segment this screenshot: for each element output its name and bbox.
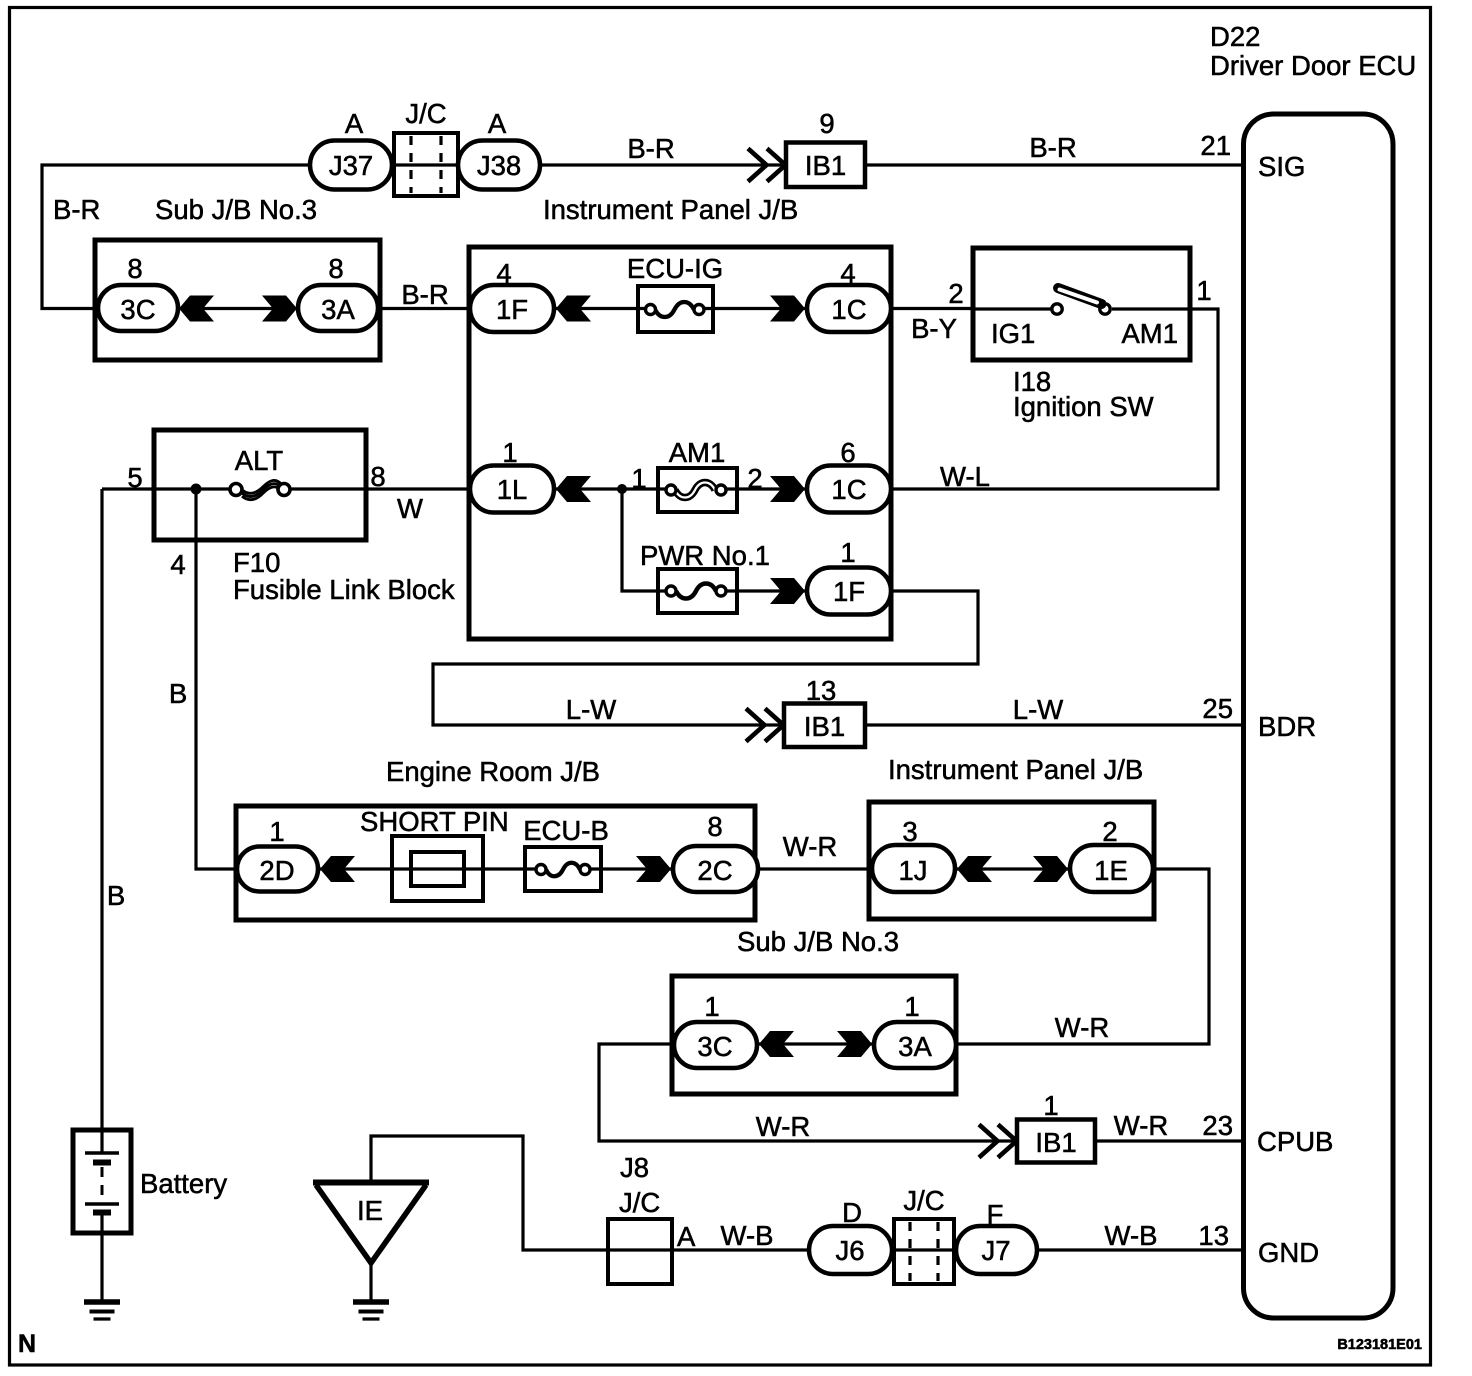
svg-text:L-W: L-W xyxy=(566,694,616,725)
svg-text:B-R: B-R xyxy=(1029,132,1076,163)
connector 1J (3) xyxy=(872,845,955,892)
svg-text:F: F xyxy=(987,1199,1004,1230)
connector 3A (8) xyxy=(298,285,378,331)
wire L-W: 1F(1) loop to IB1 (13) xyxy=(433,591,978,725)
arrow left at 3C lower xyxy=(759,1031,794,1057)
wire W-R: 1E down to 3A xyxy=(956,869,1209,1044)
junction dot at ALT pin 4 branch xyxy=(191,484,202,495)
wire: IE ground point to J8 xyxy=(371,1136,809,1250)
arrow left at 2D xyxy=(320,856,355,882)
wire W-R: 3C loop to IB1 (1) xyxy=(599,1044,1017,1141)
svg-text:B-R: B-R xyxy=(627,133,674,164)
svg-text:IB1: IB1 xyxy=(805,150,846,181)
svg-text:AM1: AM1 xyxy=(1121,318,1178,349)
svg-text:6: 6 xyxy=(840,437,855,468)
svg-text:W: W xyxy=(397,493,423,524)
connector 1F (4) xyxy=(470,285,554,332)
wire W-R: IB1 to ECU pin 23 CPUB xyxy=(1095,1139,1243,1142)
connector IB1 (13) xyxy=(784,704,865,748)
arrow right at 2C xyxy=(636,856,671,882)
svg-text:4: 4 xyxy=(840,258,855,289)
svg-text:1C: 1C xyxy=(831,294,866,325)
wire: ECU-B fuse to 2C xyxy=(585,867,673,870)
wire B-R: J38 to IB1 (top) xyxy=(540,163,786,166)
svg-text:2D: 2D xyxy=(259,855,294,886)
svg-text:A: A xyxy=(488,108,507,139)
svg-text:3A: 3A xyxy=(321,294,355,325)
connector 1C (4) xyxy=(807,285,891,332)
chevron arrows into IB1 (top) xyxy=(748,149,786,182)
svg-text:1C: 1C xyxy=(831,474,866,505)
wire: AM1 fuse to 1C(6) xyxy=(721,487,807,490)
connector J7 (F) xyxy=(956,1226,1037,1274)
arrow right at 3A xyxy=(262,296,297,322)
arrow left at 1L xyxy=(556,476,591,502)
wire B: battery vertical xyxy=(100,489,103,1153)
svg-text:3: 3 xyxy=(902,816,917,847)
fuse AM1 xyxy=(658,468,737,512)
connector J38 xyxy=(458,141,540,190)
svg-text:1F: 1F xyxy=(833,576,865,607)
wire W-L: ignition pin 1 down to 1C(6) xyxy=(891,309,1218,489)
svg-text:A: A xyxy=(345,108,364,139)
svg-text:BDR: BDR xyxy=(1258,711,1316,742)
svg-text:2C: 2C xyxy=(697,855,732,886)
wire: battery to ground xyxy=(100,1212,103,1302)
wire: 1L to AM1 fuse xyxy=(554,487,671,490)
connector J6 (D) xyxy=(809,1226,892,1274)
wire B-R: IB1 to ECU pin 21 SIG xyxy=(865,163,1243,166)
wire: ignition switch internal contacts xyxy=(973,307,1190,310)
junction connector J8 J/C box xyxy=(608,1219,672,1284)
wire: junction down to PWR No.1 fuse xyxy=(622,489,671,591)
arrow right at 3A lower xyxy=(837,1031,872,1057)
svg-text:J6: J6 xyxy=(835,1235,864,1266)
svg-text:2: 2 xyxy=(948,278,963,309)
connector 1E (2) xyxy=(1070,845,1153,892)
svg-text:Engine Room J/B: Engine Room J/B xyxy=(386,756,600,787)
svg-text:Ignition SW: Ignition SW xyxy=(1013,391,1154,422)
ECU U:D22 Driver Door ECU body xyxy=(1244,114,1394,1318)
Sub J/B No.3 box (3C/3A lower) xyxy=(672,976,956,1094)
svg-text:Sub J/B No.3: Sub J/B No.3 xyxy=(737,926,899,957)
svg-text:21: 21 xyxy=(1200,130,1231,161)
svg-text:B-Y: B-Y xyxy=(911,313,957,344)
svg-text:3A: 3A xyxy=(898,1031,932,1062)
svg-text:B: B xyxy=(107,880,125,911)
wire W-B: J6 J/C J7 internal xyxy=(892,1248,956,1251)
fuse PWR No.1 xyxy=(658,569,737,613)
svg-text:Instrument Panel J/B: Instrument Panel J/B xyxy=(888,754,1143,785)
svg-text:2: 2 xyxy=(747,463,762,494)
svg-text:13: 13 xyxy=(1198,1220,1229,1251)
wire: PWR No.1 fuse to 1F(1) xyxy=(721,589,807,592)
svg-text:PWR No.1: PWR No.1 xyxy=(640,540,770,571)
arrow left at 1F xyxy=(556,296,591,322)
wire B-R: J37 left down to 3C xyxy=(42,165,310,309)
svg-text:W-R: W-R xyxy=(783,831,837,862)
svg-text:J/C: J/C xyxy=(619,1187,660,1218)
junction connector J/C (bottom) xyxy=(894,1219,954,1284)
connector IB1 (9) xyxy=(786,143,865,188)
svg-text:ECU-B: ECU-B xyxy=(523,815,609,846)
svg-text:3C: 3C xyxy=(697,1031,732,1062)
svg-text:1L: 1L xyxy=(497,474,528,505)
connector J37 xyxy=(310,141,392,190)
svg-text:A: A xyxy=(677,1221,696,1252)
connector 3C (1) xyxy=(674,1022,757,1068)
svg-text:J/C: J/C xyxy=(903,1185,944,1216)
ground (IE) xyxy=(353,1302,389,1319)
svg-text:8: 8 xyxy=(328,253,343,284)
svg-text:W-L: W-L xyxy=(940,461,990,492)
ignition switch contacts and lever xyxy=(1052,288,1110,314)
svg-text:8: 8 xyxy=(707,811,722,842)
connector 3A (1) xyxy=(874,1022,956,1068)
svg-text:B-R: B-R xyxy=(401,279,448,310)
wire W-B: J7 to ECU pin 13 GND xyxy=(1037,1248,1243,1251)
wire: IE apex to ground xyxy=(369,1262,372,1302)
connector 1C (6) xyxy=(807,466,891,513)
svg-text:W-B: W-B xyxy=(1105,1220,1158,1251)
ignition switch I18 box xyxy=(973,248,1190,360)
arrow right at 1E xyxy=(1033,856,1068,882)
svg-text:J38: J38 xyxy=(477,150,521,181)
wire: 3C to 3A inside lower Sub J/B No.3 xyxy=(757,1042,874,1045)
arrow left at 1J xyxy=(957,856,992,882)
connector 3C (8) xyxy=(98,285,178,331)
Sub J/B No.3 box (1J/1E) xyxy=(869,802,1154,919)
ground point IE triangle xyxy=(313,1183,429,1264)
connector 2D (1) xyxy=(237,847,318,892)
svg-text:1E: 1E xyxy=(1094,855,1128,886)
wire: 3C to 3A inside Sub J/B No.3 xyxy=(178,307,298,310)
arrow right at 1C (6) xyxy=(770,476,805,502)
svg-text:W-R: W-R xyxy=(1055,1012,1109,1043)
chevron arrows into IB1 (13) xyxy=(746,709,784,742)
svg-text:GND: GND xyxy=(1258,1237,1319,1268)
svg-text:4: 4 xyxy=(496,258,511,289)
svg-text:W-R: W-R xyxy=(756,1111,810,1142)
wire: 1F to ECU-IG fuse to 1C xyxy=(554,307,807,310)
svg-text:1: 1 xyxy=(1043,1090,1058,1121)
arrow right at 1C (4) xyxy=(770,296,805,322)
svg-text:4: 4 xyxy=(170,549,185,580)
svg-text:IB1: IB1 xyxy=(804,711,845,742)
svg-text:J37: J37 xyxy=(329,150,373,181)
svg-text:1: 1 xyxy=(704,991,719,1022)
svg-text:J7: J7 xyxy=(981,1235,1010,1266)
fusible link ALT xyxy=(230,480,290,499)
Instrument Panel J/B box (middle) xyxy=(469,247,891,639)
connector IB1 (1) xyxy=(1017,1120,1095,1163)
wire: 1J to 1E inside Sub J/B No.3 xyxy=(955,867,1070,870)
svg-text:9: 9 xyxy=(819,108,834,139)
svg-text:IG1: IG1 xyxy=(991,318,1035,349)
svg-text:L-W: L-W xyxy=(1013,694,1063,725)
connector 1L (1) xyxy=(470,466,554,513)
svg-text:5: 5 xyxy=(127,462,142,493)
svg-text:Driver Door ECU: Driver Door ECU xyxy=(1210,50,1416,81)
wire W-R: 2C to 1J xyxy=(758,867,872,870)
svg-text:1: 1 xyxy=(904,991,919,1022)
wire B-R: 3A to 1F xyxy=(378,307,470,310)
svg-text:B-R: B-R xyxy=(53,194,100,225)
svg-text:Sub J/B No.3: Sub J/B No.3 xyxy=(155,194,317,225)
chevron arrows into IB1 (1) xyxy=(979,1125,1017,1158)
Engine Room J/B box xyxy=(236,806,755,920)
svg-text:1: 1 xyxy=(1196,275,1211,306)
arrow left at 3C xyxy=(179,296,214,322)
svg-text:D22: D22 xyxy=(1210,21,1260,52)
svg-text:CPUB: CPUB xyxy=(1257,1126,1333,1157)
fuse ECU-B xyxy=(525,847,601,891)
svg-text:1: 1 xyxy=(840,537,855,568)
wire L-W: IB1 to ECU pin 25 BDR xyxy=(865,723,1243,726)
svg-text:IE: IE xyxy=(357,1195,383,1226)
connector 1F (1) xyxy=(807,568,891,615)
junction dot at AM1 branch xyxy=(617,484,627,494)
svg-text:N: N xyxy=(18,1330,36,1358)
svg-text:8: 8 xyxy=(370,461,385,492)
svg-text:ECU-IG: ECU-IG xyxy=(627,253,723,284)
svg-text:25: 25 xyxy=(1202,693,1233,724)
svg-text:1J: 1J xyxy=(898,855,927,886)
svg-text:13: 13 xyxy=(806,675,837,706)
junction connector J/C (top) xyxy=(394,133,458,196)
svg-text:W-R: W-R xyxy=(1114,1110,1168,1141)
svg-text:AM1: AM1 xyxy=(669,437,726,468)
svg-text:23: 23 xyxy=(1202,1110,1233,1141)
wire B-Y: 1C to ignition switch pin 2 xyxy=(891,307,973,310)
svg-text:B123181E01: B123181E01 xyxy=(1337,1337,1422,1353)
svg-text:IB1: IB1 xyxy=(1035,1127,1076,1158)
fuse ECU-IG xyxy=(638,286,713,332)
svg-text:W-B: W-B xyxy=(721,1220,774,1251)
battery xyxy=(73,1130,131,1233)
svg-text:3C: 3C xyxy=(120,294,155,325)
connector 2C (8) xyxy=(673,846,758,892)
svg-text:8: 8 xyxy=(127,253,142,284)
svg-text:D: D xyxy=(842,1197,862,1228)
fusible link block F10 box xyxy=(154,430,366,540)
Sub J/B No.3 box (3C/3A upper) xyxy=(95,240,380,360)
svg-text:1: 1 xyxy=(502,437,517,468)
svg-text:J/C: J/C xyxy=(405,98,446,129)
ground (battery) xyxy=(84,1302,120,1319)
wire B: ALT junction down to 2D xyxy=(196,489,237,869)
svg-text:Instrument Panel J/B: Instrument Panel J/B xyxy=(543,194,798,225)
arrow right at 1F (1) xyxy=(770,578,805,604)
wire B: battery feed to ALT pin 5 xyxy=(102,487,236,490)
svg-text:SHORT PIN: SHORT PIN xyxy=(360,806,509,837)
svg-text:1: 1 xyxy=(269,816,284,847)
SHORT PIN symbol xyxy=(392,836,483,901)
svg-text:1: 1 xyxy=(631,463,646,494)
svg-text:Fusible Link Block: Fusible Link Block xyxy=(233,574,455,605)
svg-text:J8: J8 xyxy=(620,1152,649,1183)
svg-text:B: B xyxy=(169,678,187,709)
svg-text:ALT: ALT xyxy=(235,445,284,476)
wire: 2D arrow to SHORT PIN to ECU-B fuse xyxy=(320,867,541,870)
svg-text:Battery: Battery xyxy=(140,1168,227,1199)
svg-text:SIG: SIG xyxy=(1258,151,1305,182)
svg-text:2: 2 xyxy=(1102,816,1117,847)
wire W: ALT pin 8 to 1L xyxy=(284,487,470,490)
svg-text:1F: 1F xyxy=(496,294,528,325)
